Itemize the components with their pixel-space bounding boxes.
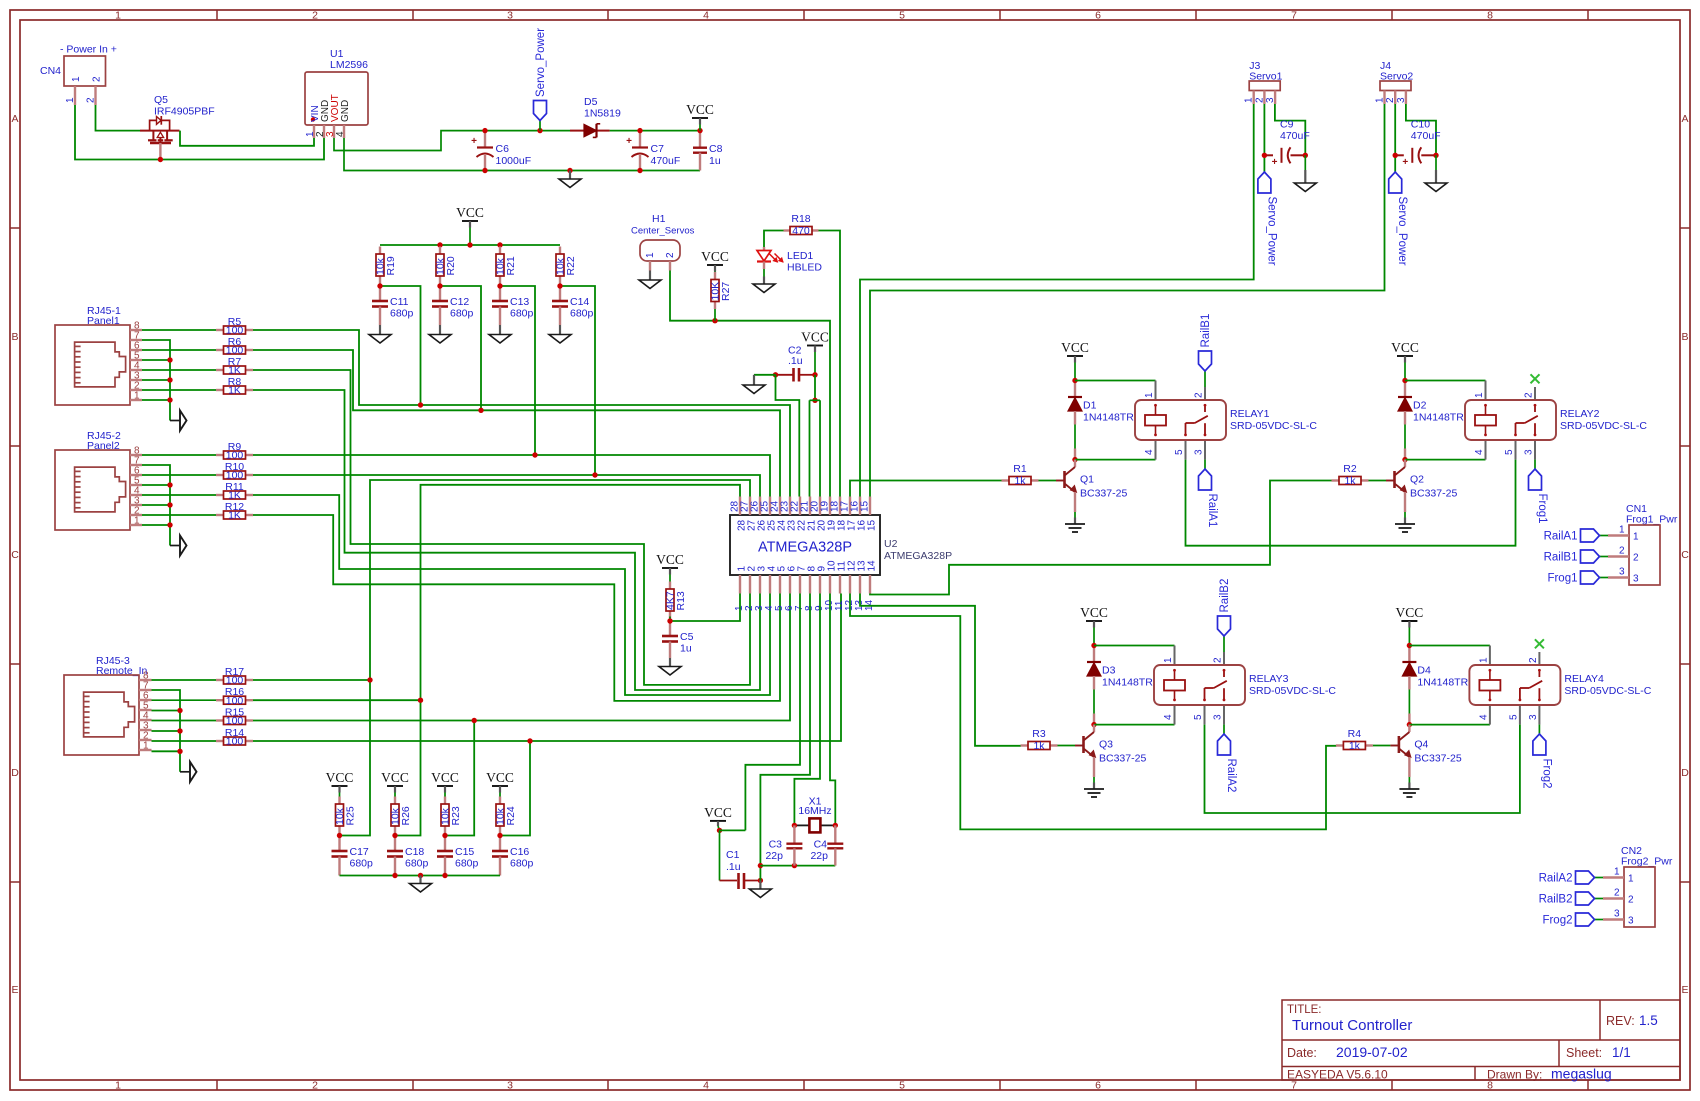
svg-text:RELAY4: RELAY4	[1564, 673, 1604, 685]
svg-text:VCC: VCC	[701, 249, 729, 264]
resistor R4 1k	[1336, 728, 1399, 752]
ground stem	[649, 271, 651, 281]
junction	[158, 157, 163, 162]
wire R16 net	[253, 699, 421, 701]
capacitor C4 22p	[810, 825, 843, 865]
svg-text:R4: R4	[1348, 728, 1362, 740]
wire	[1075, 380, 1156, 382]
wire	[1595, 919, 1604, 921]
wire	[720, 829, 746, 831]
svg-text:R13: R13	[675, 591, 687, 610]
wire	[142, 329, 216, 331]
wire U2 pin9 XTAL1	[794, 594, 820, 826]
junction	[418, 698, 423, 703]
connector CN2 Frog2_Pwr	[1603, 845, 1673, 927]
svg-text:U2: U2	[884, 538, 898, 550]
wire GND rail	[344, 138, 700, 171]
svg-text:C4: C4	[814, 839, 828, 851]
junction	[1072, 378, 1077, 383]
VCC	[1396, 605, 1424, 621]
VCC	[656, 552, 684, 568]
wire unused pins bus	[142, 340, 170, 421]
svg-text:1N4148TR: 1N4148TR	[1083, 412, 1134, 424]
svg-text:3: 3	[1396, 97, 1407, 103]
resistor R15 100	[216, 706, 253, 727]
regulator U1 LM2596	[305, 48, 368, 138]
resistor R3 1k	[1021, 728, 1084, 752]
resistor R25 10k	[334, 797, 357, 834]
junction	[442, 833, 447, 838]
junction	[758, 863, 763, 868]
junction	[418, 402, 423, 407]
ground	[410, 884, 432, 893]
title block	[1282, 1000, 1680, 1082]
connector RJ45-2 Panel2	[55, 430, 142, 530]
ground stem	[753, 375, 755, 385]
wire R10 net to U2 pin26	[253, 475, 760, 497]
wire U2 pin13 to R3	[860, 594, 1021, 746]
svg-text:6: 6	[1095, 1080, 1101, 1092]
net flag Servo_Power	[1258, 172, 1278, 266]
crystal X1 16MHz	[794, 796, 835, 833]
resistor R13 4K7	[665, 582, 688, 619]
capacitor C18 680p	[387, 836, 429, 876]
ground stem	[569, 171, 571, 180]
ground stem	[439, 325, 441, 335]
svg-text:1u: 1u	[709, 155, 721, 167]
svg-text:2: 2	[1628, 895, 1634, 906]
VCC	[456, 205, 484, 221]
junction	[1407, 722, 1412, 727]
svg-text:VCC: VCC	[326, 770, 354, 785]
wire reset to U2 pin1	[670, 594, 740, 622]
svg-text:C8: C8	[709, 143, 723, 155]
relay RELAY2 SRD-05VDC-SL-C	[1465, 381, 1647, 460]
wire R9 net to U2 pin25	[253, 455, 770, 497]
svg-text:SRD-05VDC-SL-C: SRD-05VDC-SL-C	[1560, 420, 1647, 432]
ground stem	[1435, 155, 1437, 183]
diode D1 1N4148TR	[1068, 381, 1134, 460]
capacitor C17 680p	[332, 836, 374, 876]
svg-text:ATMEGA328P: ATMEGA328P	[884, 550, 952, 562]
svg-text:1: 1	[71, 76, 82, 82]
VCC	[326, 770, 354, 786]
wire	[152, 699, 217, 701]
wire	[1075, 459, 1156, 461]
junction	[1402, 457, 1407, 462]
LED LED1 HBLED	[757, 247, 822, 277]
resistor R20 10k	[435, 247, 458, 284]
VCC stub	[718, 821, 720, 831]
svg-text:3: 3	[1524, 449, 1535, 455]
junction	[812, 398, 817, 403]
resistor R12 1K	[216, 501, 253, 522]
svg-text:CN4: CN4	[40, 65, 61, 77]
output port arrow	[170, 536, 187, 556]
svg-text:VCC: VCC	[1391, 340, 1419, 355]
connector J3 Servo1	[1244, 60, 1283, 104]
wire R17 net to U2 pin27	[340, 480, 751, 836]
svg-text:2: 2	[312, 1080, 318, 1092]
svg-text:100: 100	[226, 715, 244, 727]
ground stem	[419, 876, 421, 884]
svg-text:Frog1: Frog1	[1536, 494, 1548, 524]
wire	[1595, 877, 1604, 879]
svg-text:5: 5	[1508, 714, 1519, 720]
svg-text:R19: R19	[385, 256, 397, 275]
connector RJ45-1 Panel1	[55, 305, 142, 405]
net flag RailA1	[1199, 469, 1219, 527]
junction	[177, 708, 182, 713]
VCC	[801, 330, 829, 346]
no-connect X	[1531, 374, 1540, 383]
ground	[1399, 789, 1419, 797]
wire R15 net to U2 pin6	[253, 594, 790, 721]
svg-text:2: 2	[1385, 97, 1396, 103]
svg-text:D1: D1	[1083, 400, 1097, 412]
net flag Frog1	[1547, 571, 1599, 585]
svg-text:1: 1	[143, 741, 149, 752]
junction	[532, 452, 537, 457]
junction	[367, 677, 372, 682]
svg-text:1N4148TR: 1N4148TR	[1102, 677, 1153, 689]
svg-text:Turnout Controller: Turnout Controller	[1292, 1017, 1412, 1034]
wire	[1534, 460, 1536, 469]
svg-text:R22: R22	[565, 256, 577, 275]
wire	[1600, 535, 1609, 537]
svg-text:VCC: VCC	[431, 770, 459, 785]
ground	[559, 179, 581, 188]
svg-text:R24: R24	[505, 806, 517, 825]
svg-text:RailA2: RailA2	[1539, 873, 1573, 885]
ground	[1395, 524, 1415, 532]
wire	[142, 369, 216, 371]
capacitor C15 680p	[437, 836, 479, 876]
svg-text:VCC: VCC	[1080, 605, 1108, 620]
net flag Servo_Power	[534, 28, 548, 121]
net flag Servo_Power	[1389, 172, 1409, 266]
svg-text:C7: C7	[651, 143, 665, 155]
wire R5 net to U2 pin23	[253, 330, 790, 497]
svg-text:1.5: 1.5	[1639, 1013, 1658, 1028]
svg-text:1: 1	[1478, 657, 1489, 663]
svg-text:470uF: 470uF	[1280, 130, 1310, 142]
ground stem	[499, 325, 501, 335]
svg-text:ATMEGA328P: ATMEGA328P	[758, 540, 852, 556]
svg-text:C13: C13	[510, 296, 529, 308]
svg-text:R18: R18	[791, 213, 810, 225]
svg-text:Q5: Q5	[154, 94, 168, 106]
junction	[478, 408, 483, 413]
svg-text:1k: 1k	[1349, 740, 1361, 752]
wire	[1409, 645, 1490, 647]
wire	[814, 375, 816, 401]
net flag RailA2	[1539, 871, 1595, 885]
svg-text:15: 15	[860, 500, 871, 512]
wire J4 pin1 to U2 pin15	[870, 104, 1385, 497]
wire R6 net to U2 pin24	[253, 350, 780, 497]
junction	[1091, 643, 1096, 648]
wire	[152, 679, 217, 681]
junction	[392, 833, 397, 838]
svg-text:A: A	[11, 113, 18, 125]
resistor R11 1K	[216, 481, 253, 502]
svg-text:1000uF: 1000uF	[496, 155, 532, 167]
net flag Frog2	[1542, 913, 1594, 927]
junction	[812, 372, 817, 377]
svg-text:C6: C6	[496, 143, 510, 155]
svg-text:R23: R23	[450, 806, 462, 825]
svg-text:D: D	[1681, 767, 1689, 779]
transistor Q1 BC337-25	[1065, 460, 1128, 524]
junction	[592, 472, 597, 477]
VCC	[431, 770, 459, 786]
wire RC node	[500, 286, 535, 455]
ground stem	[763, 277, 765, 285]
svg-text:3: 3	[1614, 909, 1620, 920]
svg-text:RELAY2: RELAY2	[1560, 408, 1600, 420]
junction	[167, 522, 172, 527]
svg-text:A: A	[1681, 113, 1688, 125]
wire	[1600, 556, 1609, 558]
VCC	[701, 249, 729, 265]
net flag RailB1	[1199, 314, 1213, 371]
resistor R1 1k	[1002, 463, 1065, 487]
ground	[743, 385, 765, 394]
svg-text:4: 4	[1474, 449, 1485, 455]
svg-text:VCC: VCC	[456, 205, 484, 220]
ground	[549, 335, 571, 344]
svg-text:680p: 680p	[390, 308, 414, 320]
wire	[1394, 155, 1396, 172]
junction	[792, 863, 797, 868]
wire relay3 pin5 to relay4 pin5	[1205, 725, 1520, 813]
svg-text:SRD-05VDC-SL-C: SRD-05VDC-SL-C	[1230, 420, 1317, 432]
capacitor C2 .1u	[776, 345, 816, 382]
svg-text:4: 4	[1144, 449, 1155, 455]
svg-text:LM2596: LM2596	[330, 59, 368, 71]
resistor R16 100	[216, 686, 253, 707]
wire	[142, 474, 216, 476]
capacitor C7 470uF	[626, 131, 680, 171]
svg-text:1: 1	[1619, 525, 1625, 536]
wire RC node	[440, 286, 481, 410]
svg-text:1: 1	[134, 391, 140, 402]
svg-text:2: 2	[1619, 546, 1625, 557]
svg-text:1K: 1K	[228, 385, 241, 397]
IC U2 ATMEGA328P	[730, 497, 953, 612]
svg-text:+: +	[1272, 157, 1278, 168]
diode D5 1N5819	[570, 96, 621, 137]
capacitor C9 470uF	[1272, 118, 1310, 168]
wire	[1538, 725, 1540, 734]
junction	[482, 128, 487, 133]
wire unused pins bus	[142, 465, 170, 546]
net flag Frog1	[1529, 469, 1549, 524]
wire	[754, 374, 776, 376]
junction	[667, 618, 672, 623]
junction	[497, 833, 502, 838]
svg-text:4: 4	[1478, 714, 1489, 720]
svg-text:.1u: .1u	[726, 861, 741, 873]
svg-text:1: 1	[1633, 532, 1639, 543]
svg-text:megaslug: megaslug	[1551, 1066, 1612, 1082]
resistor R14 100	[216, 727, 253, 748]
svg-text:15: 15	[867, 519, 878, 531]
junction	[637, 168, 642, 173]
wire	[714, 309, 716, 321]
capacitor C16 680p	[492, 836, 534, 876]
ground stem	[669, 658, 671, 667]
junction	[537, 128, 542, 133]
junction	[392, 873, 397, 878]
svg-text:VCC: VCC	[381, 770, 409, 785]
wire U2 pin14 to R2	[870, 481, 1333, 595]
junction	[527, 738, 532, 743]
wire H1 pin2 to U2 pin19	[670, 271, 830, 497]
svg-text:R26: R26	[400, 806, 412, 825]
svg-text:2: 2	[312, 10, 318, 22]
svg-text:1K: 1K	[228, 365, 241, 377]
svg-text:1k: 1k	[1033, 740, 1045, 752]
svg-text:100: 100	[226, 450, 244, 462]
svg-text:C14: C14	[570, 296, 589, 308]
wire RC node	[380, 286, 421, 405]
output port arrow	[170, 411, 187, 431]
svg-text:.1u: .1u	[788, 355, 803, 367]
svg-text:Center_Servos: Center_Servos	[631, 226, 695, 237]
svg-text:100: 100	[226, 325, 244, 337]
junction	[167, 397, 172, 402]
svg-text:2: 2	[1614, 888, 1620, 899]
wire unused pins bus	[152, 690, 181, 772]
wire	[764, 231, 784, 248]
junction	[467, 242, 472, 247]
capacitor C3 22p	[765, 825, 802, 865]
junction	[557, 283, 562, 288]
svg-text:3: 3	[1528, 714, 1539, 720]
transistor Q3 BC337-25	[1084, 725, 1147, 789]
svg-text:C12: C12	[450, 296, 469, 308]
svg-text:4: 4	[1163, 714, 1174, 720]
svg-text:BC337-25: BC337-25	[1080, 488, 1127, 500]
junction	[482, 168, 487, 173]
svg-text:RailB2: RailB2	[1219, 579, 1231, 613]
svg-text:C: C	[1681, 549, 1689, 561]
ground	[1065, 524, 1085, 532]
wire	[1204, 460, 1206, 469]
svg-text:GND: GND	[340, 100, 351, 122]
svg-text:5: 5	[1174, 449, 1185, 455]
resistor R8 1K	[216, 376, 253, 397]
wire	[1223, 725, 1225, 734]
junction	[792, 823, 797, 828]
resistor R9 100	[216, 441, 253, 462]
ground	[749, 889, 771, 898]
svg-text:R2: R2	[1343, 463, 1357, 475]
capacitor C14 680p	[552, 286, 594, 325]
wire to U2 pin20	[819, 400, 821, 496]
svg-text:5: 5	[1193, 714, 1204, 720]
connector RJ45-3 Remote_In	[64, 655, 152, 755]
ground	[369, 335, 391, 344]
svg-text:C10: C10	[1411, 118, 1430, 130]
svg-text:1: 1	[115, 1080, 121, 1092]
connector CN1 Frog1_Pwr	[1608, 503, 1678, 585]
wire R24 tap	[500, 741, 530, 836]
wire U2 pin8 GND	[760, 594, 810, 881]
relay RELAY3 SRD-05VDC-SL-C	[1154, 646, 1336, 725]
svg-text:1: 1	[65, 97, 76, 103]
svg-text:470: 470	[792, 225, 810, 237]
ground stem	[759, 881, 761, 890]
svg-text:3: 3	[507, 10, 513, 22]
svg-text:C1: C1	[726, 849, 740, 861]
wire R12 net to U2 pin5	[253, 515, 780, 701]
wire	[1263, 104, 1265, 155]
wire R16 net to U2 pin28	[395, 485, 740, 836]
svg-text:100: 100	[226, 345, 244, 357]
svg-text:IRF4905PBF: IRF4905PBF	[154, 106, 215, 118]
svg-text:100: 100	[226, 695, 244, 707]
VCC	[1391, 340, 1419, 356]
svg-text:1N5819: 1N5819	[584, 108, 621, 120]
wire	[142, 514, 216, 516]
no-connect X	[1535, 639, 1544, 648]
resistor R6 100	[216, 336, 253, 357]
wire	[1406, 104, 1436, 155]
svg-text:Drawn By:: Drawn By:	[1487, 1068, 1542, 1082]
wire to U2 pin22	[776, 375, 800, 497]
connector CN4 Power In	[40, 44, 117, 106]
svg-text:Servo_Power: Servo_Power	[535, 28, 547, 97]
resistor R22 10k	[555, 247, 578, 284]
svg-text:1k: 1k	[1014, 475, 1026, 487]
svg-text:E: E	[1681, 984, 1688, 996]
junction	[833, 823, 838, 828]
svg-text:100: 100	[226, 675, 244, 687]
svg-text:C11: C11	[390, 296, 409, 308]
junction	[377, 283, 382, 288]
svg-text:1: 1	[134, 516, 140, 527]
junction	[442, 873, 447, 878]
wire R14 net to U2 pin11	[253, 594, 841, 742]
junction	[1407, 643, 1412, 648]
ground stem	[379, 325, 381, 335]
svg-text:R1: R1	[1013, 463, 1027, 475]
svg-text:22p: 22p	[765, 850, 783, 862]
capacitor C13 680p	[492, 286, 534, 325]
capacitor C11 680p	[372, 286, 414, 325]
svg-text:680p: 680p	[350, 858, 374, 870]
svg-text:RailA2: RailA2	[1225, 759, 1237, 793]
svg-text:100: 100	[226, 736, 244, 748]
junction	[177, 728, 182, 733]
resistor R2 1k	[1332, 463, 1395, 487]
VCC	[486, 770, 514, 786]
svg-text:VCC: VCC	[656, 552, 684, 567]
svg-text:EASYEDA V5.6.10: EASYEDA V5.6.10	[1287, 1068, 1388, 1082]
svg-text:D: D	[11, 767, 19, 779]
wire R11 net to U2 pin4	[253, 495, 770, 695]
net flag RailA1	[1544, 529, 1600, 543]
svg-text:6: 6	[1095, 10, 1101, 22]
resistor R5 100	[216, 316, 253, 337]
resistor R21 10k	[495, 247, 518, 284]
wire	[1405, 459, 1486, 461]
svg-text:Date:: Date:	[1287, 1046, 1317, 1060]
svg-text:RailA1: RailA1	[1206, 494, 1218, 528]
